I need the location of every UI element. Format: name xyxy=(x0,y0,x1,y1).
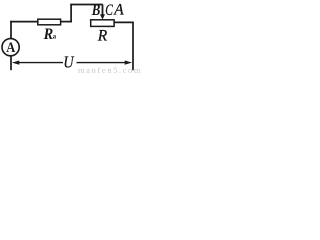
rheostat R body xyxy=(91,20,114,27)
wire (top-left horizontal to R0) xyxy=(10,21,38,23)
wire (top horizontal to wiper) xyxy=(70,4,102,6)
svg-text:manfen5.com: manfen5.com xyxy=(78,65,142,75)
resistor R0 xyxy=(38,19,61,25)
voltage arrow U (right segment with arrowhead) xyxy=(77,62,127,64)
svg-text:B: B xyxy=(91,2,101,19)
svg-text:C: C xyxy=(105,2,113,19)
wire (R0 to riser) xyxy=(61,21,72,23)
wire (ammeter bottom to left terminal bar) xyxy=(10,56,12,70)
wire (vertical riser up) xyxy=(70,4,72,23)
wire (right vertical bar / terminal) xyxy=(132,22,134,70)
svg-text:U: U xyxy=(63,52,74,71)
svg-text:A: A xyxy=(6,40,15,56)
wire (left vertical riser from ammeter to top-left corner) xyxy=(10,21,12,39)
svg-text:A: A xyxy=(113,2,124,19)
voltage arrow U (left segment with arrowhead) xyxy=(18,62,63,64)
svg-text:a: a xyxy=(53,32,57,40)
wire (rheostat right end to right bar) xyxy=(114,21,134,23)
ammeter A xyxy=(2,39,19,56)
wiper arrow of rheostat xyxy=(102,5,104,16)
svg-text:R: R xyxy=(97,28,108,45)
